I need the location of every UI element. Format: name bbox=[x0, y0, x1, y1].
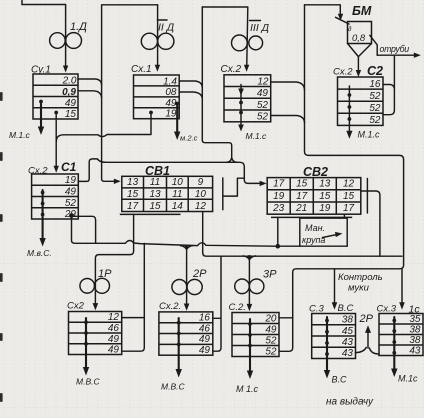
svg-text:II Д: II Д bbox=[158, 22, 175, 34]
wire 2Р inner to М.В.С bbox=[178, 318, 180, 373]
wire Сх.1 row4 joining С1 feed bbox=[56, 113, 151, 142]
wire С1 row4 loop bbox=[73, 216, 96, 243]
svg-text:19: 19 bbox=[319, 203, 331, 214]
svg-text:52: 52 bbox=[65, 198, 77, 209]
wire отруби bbox=[377, 54, 417, 56]
svg-text:13: 13 bbox=[319, 179, 331, 190]
svg-text:муки: муки bbox=[348, 283, 370, 294]
svg-text:12: 12 bbox=[195, 201, 207, 212]
svg-text:крупа: крупа bbox=[302, 235, 325, 245]
svg-text:17: 17 bbox=[273, 179, 285, 190]
node Сх.1 row4 junction bbox=[149, 111, 153, 115]
svg-text:2.0: 2.0 bbox=[62, 76, 77, 87]
wire СВ1 left stub to 1Р feed bbox=[95, 214, 133, 307]
wire collector IIIД down to bus A bbox=[202, 7, 231, 158]
svg-text:17: 17 bbox=[343, 203, 355, 214]
svg-text:45: 45 bbox=[342, 326, 354, 337]
svg-text:21: 21 bbox=[295, 203, 307, 214]
svg-text:Контроль: Контроль bbox=[338, 272, 383, 283]
svg-text:1Р: 1Р bbox=[98, 268, 112, 280]
wire СВ2 row2 down to bus B bbox=[361, 191, 380, 256]
svg-text:38: 38 bbox=[409, 335, 421, 346]
svg-text:0,8: 0,8 bbox=[352, 33, 366, 44]
svg-text:15: 15 bbox=[65, 109, 77, 120]
svg-text:19: 19 bbox=[165, 109, 177, 120]
svg-text:16: 16 bbox=[369, 79, 381, 90]
svg-text:М.1с: М.1с bbox=[398, 374, 418, 384]
svg-text:49: 49 bbox=[108, 345, 120, 356]
svg-text:10: 10 bbox=[172, 177, 184, 188]
svg-text:М.1.с: М.1.с bbox=[358, 130, 381, 140]
wire СВ2 stub to bus A bbox=[277, 217, 279, 245]
svg-text:9: 9 bbox=[198, 177, 204, 188]
svg-text:0,9: 0,9 bbox=[62, 87, 76, 98]
svg-text:м.2.с: м.2.с bbox=[180, 134, 198, 143]
svg-text:49: 49 bbox=[108, 334, 120, 345]
wire Су.1 rows 1-2 to collector bbox=[78, 79, 102, 98]
svg-text:15: 15 bbox=[127, 189, 139, 200]
svg-text:52: 52 bbox=[257, 100, 269, 111]
wire Сх.1 rows 1-2 to collector bbox=[179, 81, 202, 99]
svg-text:2Р: 2Р bbox=[192, 268, 207, 280]
svg-text:16: 16 bbox=[199, 313, 211, 324]
svg-text:08: 08 bbox=[165, 87, 177, 98]
wire БМ to С2 bbox=[357, 57, 359, 74]
svg-text:11: 11 bbox=[172, 189, 182, 200]
svg-text:15: 15 bbox=[343, 191, 355, 202]
wire БМ feed bbox=[305, 5, 341, 18]
svg-text:Сх.1: Сх.1 bbox=[131, 64, 152, 75]
wire СВ1 right stub / bus B bbox=[203, 212, 402, 257]
left margin scan dashes bbox=[0, 92, 3, 402]
svg-text:М 1.с: М 1.с bbox=[236, 384, 259, 394]
svg-text:49: 49 bbox=[257, 88, 269, 99]
svg-text:Сх.2: Сх.2 bbox=[221, 64, 242, 75]
svg-text:1.4: 1.4 bbox=[163, 76, 177, 87]
svg-text:13: 13 bbox=[127, 177, 139, 188]
svg-text:В.С: В.С bbox=[338, 303, 354, 314]
svg-text:52: 52 bbox=[265, 347, 277, 358]
svg-text:52: 52 bbox=[265, 335, 277, 346]
roller mill 2Р bbox=[172, 280, 187, 295]
svg-text:В.С: В.С bbox=[332, 375, 348, 385]
svg-text:52: 52 bbox=[257, 112, 269, 123]
wire Сх.2 inner to М.1.с bbox=[240, 85, 242, 128]
node С1 row4 junction bbox=[69, 213, 74, 218]
wire Сх.2 rows 1,4 to БМ riser bbox=[271, 82, 305, 123]
svg-text:49: 49 bbox=[265, 324, 277, 335]
svg-text:∂: ∂ bbox=[348, 26, 352, 33]
box манная крупа bbox=[300, 214, 347, 246]
svg-text:14: 14 bbox=[172, 201, 184, 212]
wire 2Р hook bbox=[213, 256, 221, 351]
wire СВ2 bottom extension bbox=[271, 216, 352, 218]
wire С2 hook rows 1-4 bbox=[383, 55, 394, 114]
wire 3Р feed drop bbox=[248, 257, 250, 308]
svg-text:М.В.С: М.В.С bbox=[76, 377, 100, 387]
wire 3Р hook row1 bbox=[279, 317, 293, 319]
wire 3Р inner to М.1.с bbox=[249, 319, 251, 374]
svg-text:43: 43 bbox=[342, 337, 354, 348]
wire СВ1 bottom extension bbox=[120, 213, 181, 215]
svg-text:15: 15 bbox=[319, 191, 331, 202]
svg-text:С1: С1 bbox=[61, 160, 77, 174]
svg-text:43: 43 bbox=[342, 348, 354, 359]
svg-text:М.1.с: М.1.с bbox=[246, 131, 268, 141]
svg-text:12: 12 bbox=[108, 312, 120, 323]
svg-text:Сх.2: Сх.2 bbox=[333, 67, 353, 78]
svg-text:отруби: отруби bbox=[380, 44, 410, 54]
svg-text:38: 38 bbox=[409, 325, 421, 336]
svg-text:52: 52 bbox=[369, 91, 381, 102]
svg-text:13: 13 bbox=[149, 189, 161, 200]
svg-text:15: 15 bbox=[149, 201, 161, 212]
svg-text:М.1.с: М.1.с bbox=[9, 130, 31, 140]
wire feed IIД bbox=[157, 5, 159, 69]
svg-text:17: 17 bbox=[127, 201, 139, 212]
svg-text:49: 49 bbox=[199, 334, 211, 345]
svg-text:49: 49 bbox=[199, 345, 211, 356]
wire Су.1 row4 to С1 bbox=[55, 113, 57, 170]
wire Су.1 to М.1.с bbox=[40, 102, 42, 130]
svg-text:10: 10 bbox=[195, 189, 207, 200]
svg-text:46: 46 bbox=[108, 323, 120, 334]
node Су.1 row4 junction bbox=[54, 111, 58, 115]
svg-text:на выдачу: на выдачу bbox=[326, 397, 374, 408]
wire 1Р inner to М.В.С bbox=[85, 318, 87, 371]
svg-text:52: 52 bbox=[369, 115, 381, 126]
node Су.1 row3 junction bbox=[39, 100, 43, 104]
svg-text:Сх.2.: Сх.2. bbox=[159, 301, 181, 312]
svg-text:Сх2: Сх2 bbox=[67, 301, 85, 312]
svg-text:52: 52 bbox=[369, 103, 381, 114]
svg-text:35: 35 bbox=[409, 314, 421, 325]
svg-text:3Р: 3Р bbox=[263, 269, 277, 281]
svg-text:38: 38 bbox=[342, 315, 354, 326]
svg-text:19: 19 bbox=[273, 191, 285, 202]
wire collector IIД / СВ1 feed bbox=[102, 5, 158, 182]
wire С.3 inner to В.С bbox=[326, 317, 328, 374]
svg-text:12: 12 bbox=[257, 76, 269, 87]
svg-text:Ман.: Ман. bbox=[305, 223, 325, 233]
svg-text:43: 43 bbox=[409, 345, 421, 356]
wire 1Р hook bbox=[122, 244, 145, 352]
svg-text:БМ: БМ bbox=[352, 4, 372, 18]
funnel БМ bbox=[348, 44, 372, 57]
svg-text:49: 49 bbox=[65, 98, 77, 109]
svg-text:49: 49 bbox=[65, 187, 77, 198]
wire riser БМ / down to СВ2 bus bbox=[279, 5, 403, 352]
svg-text:12: 12 bbox=[343, 179, 355, 190]
roller mill 1Р bbox=[80, 279, 95, 294]
svg-text:17: 17 bbox=[296, 191, 308, 202]
wire Сх.3 inner to М.1с bbox=[393, 317, 395, 372]
svg-text:23: 23 bbox=[272, 203, 285, 214]
svg-text:20: 20 bbox=[264, 313, 277, 324]
svg-text:1.Д: 1.Д bbox=[70, 21, 87, 33]
svg-text:46: 46 bbox=[199, 323, 211, 334]
svg-text:М.в.С.: М.в.С. bbox=[27, 248, 52, 258]
roller mill IIIД bbox=[232, 35, 248, 51]
wire bus A (С1 row4 collector) bbox=[72, 216, 348, 247]
svg-text:С.2.: С.2. bbox=[229, 302, 246, 313]
wire Сх.1 to м.2.с bbox=[176, 104, 178, 136]
svg-text:19: 19 bbox=[65, 175, 77, 186]
roller mill IIД bbox=[141, 33, 157, 49]
wire feed IIIД bbox=[202, 7, 248, 69]
svg-text:С2: С2 bbox=[367, 64, 383, 78]
svg-text:М.В.С: М.В.С bbox=[161, 382, 185, 392]
wire feed 1Д bbox=[22, 0, 66, 70]
wire С2 inner to М.1.с bbox=[348, 86, 350, 134]
svg-text:III Д: III Д bbox=[250, 22, 270, 34]
svg-text:11: 11 bbox=[150, 177, 160, 188]
svg-text:2Р: 2Р bbox=[359, 313, 374, 325]
wire С1 inner to М.в.с bbox=[42, 190, 44, 241]
wire С1 row1 to СВ2 (wire A) bbox=[78, 159, 261, 184]
node Сх.1 row3 junction bbox=[175, 102, 179, 106]
roller mill 1Д bbox=[50, 33, 66, 49]
wire СВ1 right bracket to СВ2 feed bbox=[223, 178, 244, 210]
svg-text:15: 15 bbox=[296, 179, 308, 190]
wire 2Р feed drop bbox=[186, 246, 188, 307]
wire СВ2 right bracket bbox=[366, 179, 368, 214]
wire контроль муки arrows bbox=[334, 269, 336, 306]
roller mill 3Р bbox=[235, 279, 250, 294]
